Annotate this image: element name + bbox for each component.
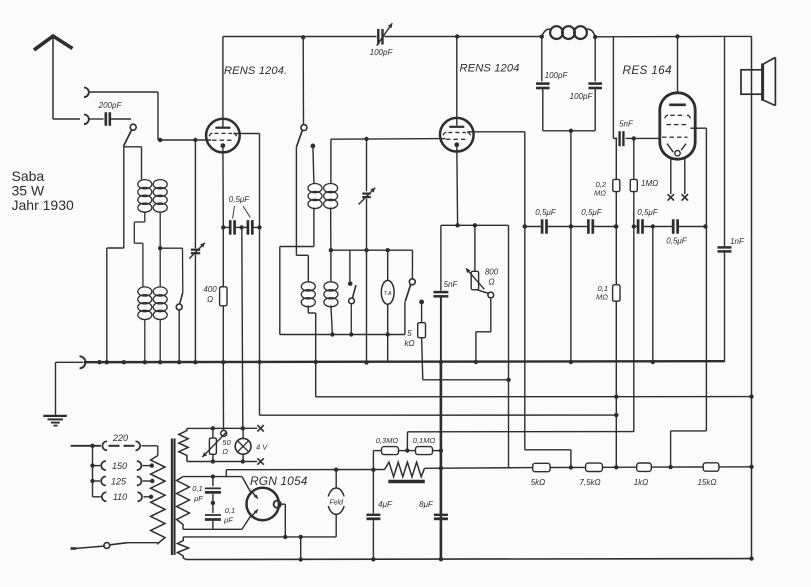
svg-text:Ω: Ω (207, 295, 213, 304)
transformer primary winding (151, 456, 165, 545)
node bottom bus taps (371, 556, 754, 561)
trimmer C-pad (189, 140, 205, 362)
svg-text:kΩ: kΩ (404, 339, 414, 348)
pilot lamp 4V (235, 428, 268, 461)
label RENS1204 V2 (460, 63, 520, 75)
capacitor 0.5uF row2 b (666, 219, 688, 245)
node row1 mid (569, 224, 573, 228)
wire rectifier output (281, 504, 286, 537)
node varcap bus (364, 360, 368, 364)
svg-text:15kΩ: 15kΩ (698, 478, 717, 487)
wire HV top (183, 476, 242, 478)
node row TA bottom (386, 332, 390, 336)
node tap cap row (569, 224, 573, 228)
wire 5k feed (421, 302, 423, 323)
wire 5nF drop (440, 225, 442, 290)
wire T3 lower-left bottom (308, 306, 315, 397)
svg-text:Feld: Feld (329, 500, 344, 507)
switch S5 mains (71, 543, 158, 549)
node tank right (593, 35, 597, 39)
node 800 top (473, 223, 477, 227)
wire top rail mid (384, 36, 542, 38)
bus ground rail (84, 361, 725, 362)
HV winding W2 (177, 477, 190, 530)
resistor 0.2M (594, 138, 620, 197)
node row coil bottom (330, 332, 334, 336)
svg-text:0,5μF: 0,5μF (666, 237, 688, 246)
node tap bus (569, 360, 573, 364)
wire y431 (408, 431, 635, 433)
wire anode lead b (242, 516, 251, 530)
svg-text:0,5μF: 0,5μF (229, 195, 251, 204)
svg-text:0,5μF: 0,5μF (637, 208, 659, 217)
wire S4 row (280, 302, 405, 335)
node chain a (569, 465, 573, 469)
node Bplus bus (439, 360, 443, 364)
wire mains lead a (71, 445, 101, 447)
wire V1 grid right (234, 134, 260, 416)
wire heater bottom row (187, 458, 264, 464)
wire tank left side (541, 37, 543, 82)
node 5k top terminal (419, 300, 424, 305)
wire T1 primary to T2 primary (134, 222, 145, 287)
svg-text:0,1MΩ: 0,1MΩ (413, 436, 436, 445)
wire node row y250 (331, 250, 413, 279)
wire V1 cathode (222, 148, 224, 287)
node bus cathode (221, 360, 225, 364)
node chain d (749, 465, 753, 469)
wire B plus rail (440, 296, 442, 559)
capacitor 5nF cathode (433, 280, 458, 296)
svg-text:RENS 1204.: RENS 1204. (224, 65, 287, 77)
resistor 0.1M divider (407, 436, 441, 455)
svg-text:Ω: Ω (488, 278, 494, 287)
node V2 anode top (455, 34, 459, 38)
svg-text:8μF: 8μF (419, 500, 434, 509)
node HV top tap (211, 474, 215, 478)
node cap row left (221, 225, 225, 229)
node V1 grid bus crossing (257, 360, 261, 364)
wire row1 caps (525, 226, 616, 228)
wire y415 (260, 414, 617, 416)
wire HV bottom (183, 528, 242, 530)
svg-text:MΩ: MΩ (594, 189, 606, 198)
switch S2 band (176, 292, 183, 362)
choke Feld (327, 470, 345, 537)
node V2 coupling row (523, 224, 527, 228)
wire tank right lower (594, 88, 596, 131)
svg-text:125: 125 (111, 476, 127, 486)
wiper feed circle (221, 430, 227, 436)
transformer T1 secondary (153, 140, 167, 287)
capacitor 0.5uF row1 b (581, 208, 603, 234)
transformer T3 upper-left coil (308, 184, 322, 209)
node cap row right (257, 225, 261, 229)
transformer T3 upper-right coil (324, 184, 338, 209)
wire tank tap down (570, 131, 572, 362)
node row1 left (523, 224, 527, 228)
wire V3 grid right (691, 128, 707, 431)
svg-text:1kΩ: 1kΩ (634, 478, 649, 487)
wire anode lead a (242, 477, 251, 493)
wire T3 upper-right bottom (330, 208, 332, 251)
node 800 bus (474, 360, 478, 364)
node heater bottom taps (211, 459, 245, 463)
wire tank right side (594, 37, 596, 81)
wire T3 upper-right top to V2 grid (331, 139, 446, 184)
capacitor 0.5uF cathode b (248, 220, 252, 235)
wire y537 link (183, 536, 336, 538)
node bus a (97, 360, 126, 364)
node S3 top (301, 35, 305, 39)
transformer T2 primary (138, 287, 152, 362)
svg-text:0,5μF: 0,5μF (581, 208, 603, 217)
node grid varcap junction (364, 137, 368, 141)
resistor 800ohm (466, 225, 499, 289)
resistor 1M (630, 138, 658, 191)
wire top rail right (595, 35, 751, 37)
node 1M row (632, 224, 636, 228)
tap 150 (93, 461, 155, 471)
resistor 400ohm (203, 285, 227, 306)
wire terminal to C-ant (89, 118, 104, 120)
tap 125 (93, 476, 155, 486)
title text Saba 35 W Jahr 1930 (12, 168, 74, 213)
wire 400ohm to bus to wiper (222, 306, 224, 431)
antenna (34, 36, 80, 119)
capacitor 0.5uF cathode a (230, 220, 234, 235)
capacitor 0.5uF row1 a (535, 208, 557, 234)
wire tap to S2 (160, 248, 183, 292)
wire chain row (425, 467, 752, 469)
node tank tap (569, 129, 573, 133)
hum resistor bar (388, 480, 425, 483)
switch S3 (297, 37, 307, 146)
capacitor 0.1uF a (192, 477, 221, 513)
wire row2 mid ground (652, 227, 654, 363)
node cap mid (211, 501, 215, 505)
resistor 15kOhm (698, 463, 719, 487)
wire T3 right link (330, 250, 332, 282)
label RGN1054 (250, 474, 308, 488)
node varcap mid junction (364, 248, 368, 252)
node 0.2M row (614, 224, 618, 228)
svg-text:0,3MΩ: 0,3MΩ (376, 436, 399, 445)
node output anode top (675, 34, 679, 38)
wire TA ground (387, 335, 389, 363)
svg-text:5nF: 5nF (444, 280, 459, 289)
variable capacitor C-grid (359, 139, 376, 362)
hum resistor zigzag (385, 462, 425, 477)
svg-text:RGN 1054: RGN 1054 (250, 474, 308, 488)
svg-text:220: 220 (112, 433, 128, 443)
transformer T3 lower-left coil (301, 282, 315, 307)
node chain b (614, 465, 618, 469)
node grid-pad junction (193, 138, 197, 142)
wire V2 grid to coupling (468, 132, 525, 450)
svg-text:800: 800 (485, 268, 499, 277)
node lower-left bus crossing (314, 360, 318, 364)
svg-text:5kΩ: 5kΩ (531, 478, 546, 487)
svg-text:Jahr 1930: Jahr 1930 (12, 197, 74, 213)
svg-text:RES 164: RES 164 (623, 63, 672, 77)
filament leg a (668, 159, 674, 200)
tap 220 (102, 433, 157, 456)
wire speaker rail (751, 36, 753, 559)
svg-text:7,5kΩ: 7,5kΩ (579, 478, 600, 487)
transformer T3 lower-right coil (324, 282, 338, 307)
wire 0.3M left drop (372, 451, 374, 470)
rheostat 50ohm (202, 428, 231, 461)
node y397 junctions (614, 394, 754, 399)
resistor 0.3M (373, 436, 407, 455)
wire V2 cathode (456, 147, 459, 225)
svg-text:0,1: 0,1 (192, 484, 202, 493)
capacitor 0.5uF row2 a (637, 208, 659, 234)
node 01 to rail (439, 448, 443, 452)
node y470 taps (371, 468, 375, 472)
capacitor 0.1uF b (205, 506, 235, 529)
node selector root (90, 444, 94, 448)
node secondary-grid junction (158, 138, 162, 142)
wire T3 lower-right bottom (331, 306, 333, 335)
wire S3 to T3 lower left (296, 147, 308, 282)
wire left branch down (279, 247, 281, 335)
switch S6 feed (348, 250, 353, 286)
wire y397 (316, 396, 752, 398)
wire HV top riser (225, 470, 227, 477)
trimmer 100pF (370, 23, 394, 57)
wire 5k to corner (422, 338, 509, 380)
capacitor 1nF (718, 36, 746, 361)
wire 5nF2 to grid (626, 137, 661, 139)
node corner y380 (506, 378, 510, 382)
node Feld top (334, 468, 338, 472)
tap 110 (93, 492, 154, 502)
wire V3 grid bias link (671, 431, 707, 467)
wire grid line V1 (158, 92, 211, 140)
wire V1 anode to top rail (222, 37, 224, 127)
svg-text:4 V: 4 V (256, 443, 268, 452)
resistor 1kOhm (634, 463, 652, 487)
tube V1 RENS1204 (206, 119, 240, 153)
svg-text:μF: μF (223, 516, 233, 525)
node y415 end (614, 413, 618, 417)
wire bottom bus (186, 558, 752, 561)
wire y449 (525, 450, 571, 467)
svg-text:μF: μF (193, 494, 203, 503)
transformer T2 secondary (153, 287, 167, 362)
wire T3 upper-left bottom (280, 208, 314, 247)
wire y537 drop (299, 535, 303, 562)
node T3 right junction (329, 248, 333, 252)
node 03 01 junction (405, 448, 409, 452)
wire cap row V1 (223, 226, 259, 228)
svg-text:1MΩ: 1MΩ (641, 179, 658, 188)
node tank left (540, 34, 544, 38)
node row2 right (703, 224, 707, 228)
node T3 grid stub end (311, 144, 316, 149)
wire S1 down to bus (107, 147, 124, 362)
node band tap (158, 246, 162, 250)
node cap row mid (239, 225, 243, 229)
wire 0.1M chain (596, 284, 620, 467)
wire 0.2M down (615, 192, 617, 285)
svg-text:RENS 1204: RENS 1204 (460, 63, 520, 75)
capacitor 100pF tank a (536, 71, 568, 88)
wire tank left lower (542, 88, 544, 131)
svg-text:150: 150 (112, 461, 127, 471)
node row2 bus (651, 360, 655, 364)
wire C-ant to S1 (110, 118, 131, 120)
svg-text:200pF: 200pF (98, 101, 123, 110)
node heater top taps (211, 426, 245, 430)
speaker (741, 57, 775, 105)
wire row2 caps (634, 226, 706, 228)
antenna terminal lower (84, 115, 89, 125)
svg-text:4μF: 4μF (378, 500, 393, 509)
node 1M tap (632, 136, 636, 140)
node cathode junction (455, 223, 459, 227)
label RES164 (623, 63, 672, 77)
svg-text:400: 400 (203, 285, 217, 294)
tube V3 RES164 (660, 93, 695, 159)
switch S1 antenna (123, 124, 136, 146)
node chain c (668, 465, 672, 469)
node TA top (386, 248, 390, 252)
svg-text:T.A: T.A (384, 291, 392, 297)
svg-text:1nF: 1nF (730, 237, 745, 246)
svg-text:100pF: 100pF (370, 48, 394, 57)
svg-text:50: 50 (222, 438, 231, 447)
wiper 800 (476, 290, 494, 362)
antenna terminal upper (84, 88, 158, 98)
filament leg b (682, 159, 688, 200)
switch S6 (349, 285, 356, 334)
wire heater top row (187, 425, 264, 431)
ground symbol (43, 416, 67, 426)
resistor 5kOhm chain (531, 463, 550, 487)
wire 1M line down (633, 227, 635, 432)
svg-text:Ω: Ω (222, 447, 228, 456)
switch S4 (405, 279, 415, 302)
node S6 row (349, 332, 353, 336)
capacitor 8uF (419, 500, 448, 519)
label 0.5uF V1 (229, 195, 251, 219)
capacitor 4uF (366, 470, 393, 560)
wire T3 upper-left stub (313, 146, 314, 184)
resistor 7.5kOhm (579, 463, 602, 487)
capacitor 100pF tank b (570, 84, 602, 101)
capacitor 5nF grid (619, 120, 634, 147)
wire V2 anode to rail (456, 37, 458, 126)
wire tank to 5nF2 (613, 37, 617, 138)
node row1 right (614, 224, 618, 228)
svg-text:110: 110 (113, 492, 127, 502)
inductor L-tank (542, 26, 595, 39)
svg-text:5: 5 (407, 329, 412, 338)
ground terminal (56, 356, 86, 415)
wire S1 to T1 primary (123, 147, 141, 180)
tube V2 RENS1204 (440, 118, 474, 152)
rectifier V4 RGN1054 (247, 488, 281, 520)
svg-text:100pF: 100pF (545, 71, 569, 80)
svg-text:100pF: 100pF (570, 92, 594, 101)
wire y470 rail (226, 469, 384, 471)
wire selector stem (90, 446, 94, 497)
label RENS1204 V1 (224, 65, 287, 77)
wire 1M down (633, 192, 635, 227)
resistor 5kOhm anode (404, 323, 425, 348)
node bus coils (143, 360, 198, 364)
transformer T1 primary (138, 180, 152, 222)
svg-text:0,5μF: 0,5μF (535, 208, 557, 217)
wire V3 anode (677, 37, 679, 93)
wire top rail left (223, 36, 377, 38)
wire junction riser (406, 432, 408, 451)
wire cathode row (441, 224, 509, 226)
node chain B rail (439, 466, 443, 470)
lamp T.A (381, 250, 394, 334)
svg-text:5nF: 5nF (619, 120, 634, 129)
node rect out (283, 535, 287, 539)
svg-text:MΩ: MΩ (596, 293, 608, 302)
capacitor 200pF (98, 101, 123, 126)
wire heater mid down (242, 227, 243, 428)
transformer core (172, 439, 175, 556)
wire coupling corner (508, 225, 510, 467)
svg-text:0,1: 0,1 (225, 506, 235, 515)
node row2 mid (651, 224, 655, 228)
winding W3 (177, 537, 188, 560)
heater winding W1 (179, 428, 188, 461)
wire tank bottom (543, 130, 595, 132)
